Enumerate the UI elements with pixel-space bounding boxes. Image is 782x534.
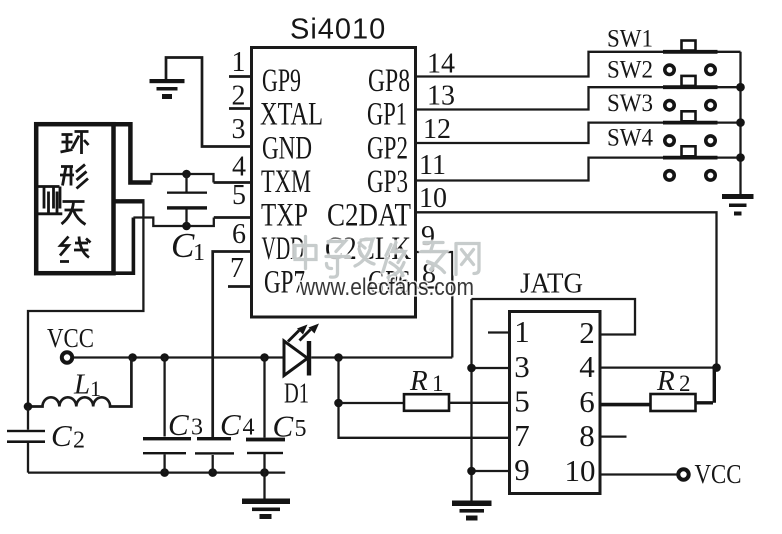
svg-text:1: 1 (514, 314, 530, 349)
pin 13 wire GP1 to SW2 (416, 87, 664, 109)
node bus/pin3 (467, 364, 476, 373)
pin 12 wire GP2 to SW3 (416, 123, 664, 143)
switch SW2 (663, 76, 741, 110)
wire JTAG ground bus (470, 299, 472, 501)
JATG pin 8 stub (no connect) (600, 435, 627, 437)
wire pin3 GND to ground hook (166, 58, 252, 147)
svg-text:VCC: VCC (47, 323, 94, 353)
watermark 电子发烧友网 (295, 237, 479, 278)
pin 14 wire GP8 to SW1 (416, 52, 664, 77)
svg-text:R: R (656, 365, 675, 397)
ground symbol (pin 3) (150, 79, 185, 99)
capacitor C1 top wire (TXM net) (152, 174, 214, 183)
capacitor C1 (167, 174, 207, 226)
wire center tap down and left to L1/C2 node (28, 201, 143, 406)
svg-text:1: 1 (90, 376, 101, 401)
node C4 bottom (208, 468, 217, 477)
VCC terminal (right) (678, 469, 688, 479)
resistor R2 (651, 394, 696, 411)
svg-text:3: 3 (232, 114, 246, 145)
svg-text:GP3: GP3 (367, 164, 408, 200)
JATG pin 3 wire from ground bus (472, 367, 510, 369)
svg-text:Si4010: Si4010 (290, 14, 386, 46)
svg-text:C2DAT: C2DAT (327, 198, 411, 234)
ground symbol (bottom rail, under C5) (242, 473, 290, 519)
svg-text:3: 3 (514, 349, 530, 384)
svg-text:11: 11 (419, 150, 446, 181)
node D1 cathode junction (334, 353, 343, 362)
antenna meander feed detail (37, 187, 62, 214)
capacitor C1 bottom wire (TXP net) (133, 218, 213, 227)
antenna second loop turn, top half to TXM tap (111, 124, 152, 182)
svg-text:GP8: GP8 (368, 63, 410, 99)
svg-text:10: 10 (419, 183, 447, 214)
svg-text:2: 2 (73, 428, 85, 454)
pin 8 stub GP6 (416, 286, 439, 288)
wire R1 right lead to JTAG pin5 (449, 402, 510, 404)
antenna vertical text 形 (60, 165, 88, 189)
svg-text:SW1: SW1 (607, 26, 653, 53)
pin 6 wire VDD going down to C4 (213, 252, 252, 439)
svg-text:D1: D1 (284, 379, 309, 410)
capacitor C4 (195, 437, 234, 473)
svg-text:7: 7 (230, 253, 244, 284)
VCC terminal (left) (62, 352, 72, 362)
svg-text:7: 7 (514, 418, 530, 453)
node TXM/C1 junction (182, 170, 191, 179)
pin 2 stub XTAL (229, 107, 252, 110)
op-amp U1 Si4010 main IC body (252, 48, 416, 318)
svg-text:GP7: GP7 (264, 265, 305, 301)
svg-text:VCC: VCC (695, 459, 742, 489)
svg-text:GP1: GP1 (367, 97, 407, 133)
svg-text:8: 8 (579, 418, 595, 453)
pin 10 wire C2DAT to R2/JTAG pin4 (416, 212, 717, 367)
node pin4/R2 junction (712, 363, 721, 372)
node C5 bottom (260, 468, 269, 477)
svg-text:SW2: SW2 (607, 57, 653, 84)
svg-text:SW3: SW3 (607, 90, 653, 117)
node SW2 bus (736, 83, 745, 92)
svg-text:C: C (273, 409, 294, 444)
pin 11 wire GP3 to SW4 (416, 158, 664, 181)
switch SW3 (663, 111, 741, 145)
pin 5 wire TXP (214, 216, 252, 219)
JATG pin 2 wire loop to ground bus top (472, 299, 636, 335)
node L1/C2 junction (24, 402, 33, 411)
svg-text:6: 6 (579, 384, 595, 419)
JATG pin 9 wire from ground bus (472, 470, 510, 472)
capacitor C5 (246, 358, 285, 473)
svg-text:1: 1 (193, 240, 205, 266)
wire R1 left lead (339, 402, 405, 404)
wire switch ground bus (739, 52, 741, 194)
svg-text:5: 5 (514, 384, 530, 419)
connector JATG box (510, 312, 601, 494)
svg-text:5: 5 (232, 180, 246, 211)
wire bottom ground rail (28, 471, 285, 473)
svg-text:4: 4 (232, 152, 246, 183)
wire D1 node down to JTAG pin7 row (339, 358, 510, 438)
loop antenna body (环形天线) outer loop (36, 124, 113, 273)
svg-text:13: 13 (427, 81, 455, 112)
svg-text:2: 2 (579, 315, 595, 350)
pin 7 stub GP7 (228, 285, 252, 288)
resistor R1 (404, 394, 449, 411)
inductor L1 (28, 358, 131, 407)
pin 9 wire C2CLK down to D1 cathode node (416, 252, 453, 358)
svg-text:SW4: SW4 (607, 125, 653, 152)
svg-text:9: 9 (514, 452, 530, 487)
wire D1 cathode to C2CLK riser (311, 356, 452, 358)
node C5 tap (260, 353, 269, 362)
svg-text:4: 4 (243, 415, 255, 441)
antenna vertical text 天 (62, 202, 86, 225)
ground symbol (switch bus) (722, 194, 754, 216)
antenna vertical text 环 (61, 132, 89, 155)
node C3 bottom (160, 468, 169, 477)
capacitor C3 (143, 358, 191, 473)
svg-text:GP2: GP2 (367, 130, 408, 166)
node SW3 bus (736, 118, 745, 127)
svg-text:6: 6 (232, 219, 246, 250)
node TXP/C1 junction (182, 222, 191, 231)
node R1 left junction (334, 399, 343, 408)
node C3 tap (160, 353, 169, 362)
svg-text:12: 12 (423, 114, 451, 145)
svg-text:4: 4 (579, 349, 595, 384)
svg-text:TXP: TXP (261, 198, 308, 234)
JATG pin 10 wire to VCC terminal (600, 473, 677, 475)
antenna vertical text 线 (60, 237, 91, 262)
wire VCC rail to D1 anode (73, 356, 284, 358)
svg-text:1: 1 (432, 371, 444, 396)
node L1 tap (128, 353, 137, 362)
antenna second loop turn, bottom half from TXP tap (111, 218, 135, 274)
capacitor C2 (7, 407, 45, 473)
ground symbol (JTAG bus) (452, 501, 492, 521)
svg-text:L: L (73, 369, 90, 401)
svg-text:R: R (409, 365, 428, 397)
svg-text:C: C (171, 226, 195, 265)
svg-text:2: 2 (232, 81, 246, 112)
node bus/pin9 (467, 467, 476, 476)
node SW4 bus (736, 153, 745, 162)
pin 4 wire TXM (214, 181, 252, 184)
antenna center tap to VCC node (114, 199, 145, 203)
wire R2 right lead (696, 368, 715, 403)
svg-text:14: 14 (427, 49, 455, 80)
svg-text:2: 2 (679, 371, 691, 396)
svg-text:5: 5 (295, 416, 307, 442)
JATG pin 1 stub (no connect) (488, 331, 510, 333)
switch SW1 (663, 41, 741, 75)
JATG pin 4 wire to R2 net (600, 366, 717, 368)
svg-text:C: C (51, 418, 72, 453)
switch SW4 (663, 146, 741, 180)
svg-text:1: 1 (232, 47, 246, 78)
svg-text:10: 10 (565, 453, 596, 488)
svg-text:TXM: TXM (261, 164, 311, 200)
svg-text:GP9: GP9 (262, 63, 301, 99)
pin 1 stub GP9 (229, 75, 252, 78)
svg-text:XTAL: XTAL (260, 97, 323, 133)
svg-text:www.elecfans.com: www.elecfans.com (299, 274, 474, 301)
svg-text:3: 3 (191, 415, 203, 441)
svg-text:GND: GND (262, 130, 312, 166)
LED D1 (284, 324, 319, 376)
svg-text:JATG: JATG (520, 268, 583, 300)
svg-text:C: C (168, 407, 189, 442)
JATG pin 6 wire to R2 (600, 403, 651, 407)
svg-text:C: C (220, 407, 241, 442)
